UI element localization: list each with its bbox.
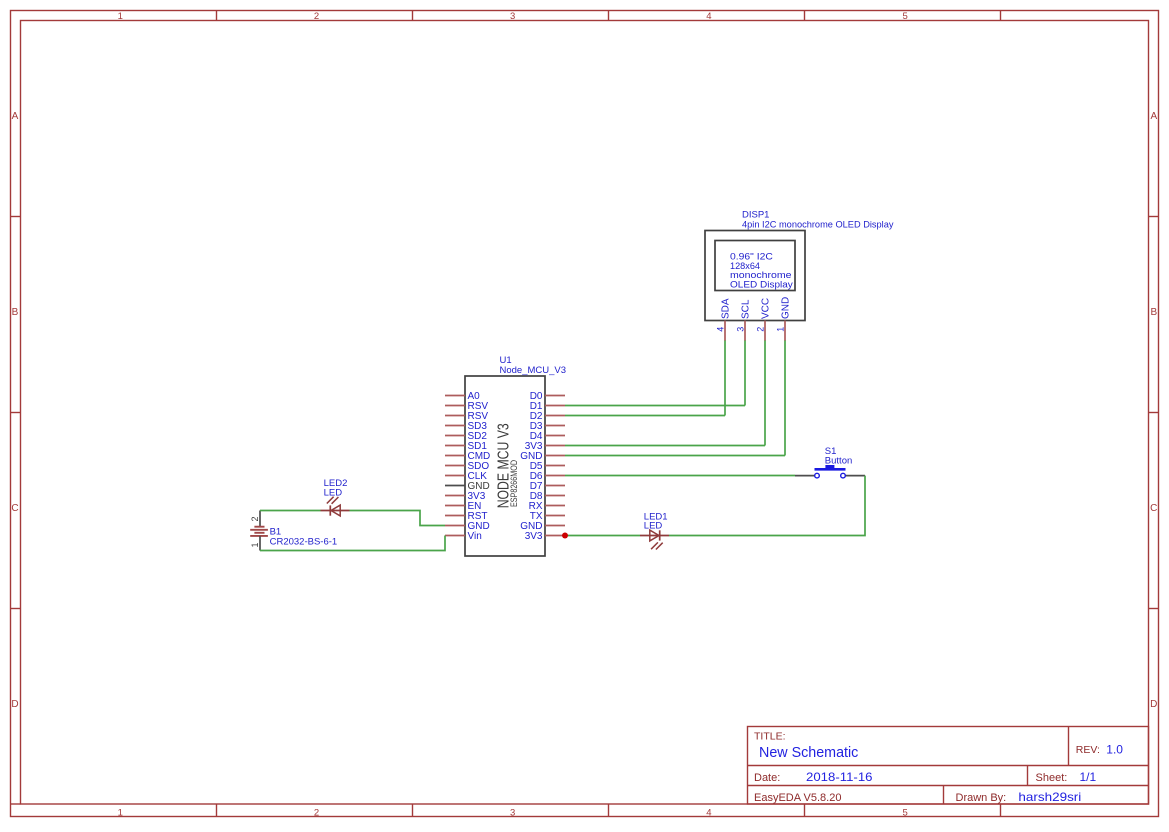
svg-text:EasyEDA V5.8.20: EasyEDA V5.8.20	[754, 792, 841, 804]
junction dot on 3V3 net	[562, 533, 568, 539]
svg-text:Sheet:: Sheet:	[1036, 772, 1068, 784]
svg-text:4: 4	[716, 327, 726, 332]
wire display GND vertical	[784, 341, 786, 456]
U1 left GND pin stub (grey)	[445, 485, 465, 487]
svg-text:C: C	[11, 503, 18, 514]
wire SDA vertical	[724, 341, 726, 416]
wires	[260, 341, 865, 551]
svg-text:CR2032-BS-6-1: CR2032-BS-6-1	[270, 537, 338, 548]
svg-text:2: 2	[250, 516, 260, 521]
svg-text:B: B	[12, 307, 19, 318]
svg-text:harsh29sri: harsh29sri	[1018, 790, 1081, 804]
wire 3V3 to LED1	[565, 535, 640, 537]
wire battery top to LED2	[260, 510, 321, 512]
S1 actuator bump	[825, 465, 834, 469]
svg-text:SDA: SDA	[721, 298, 732, 319]
svg-text:2: 2	[756, 327, 766, 332]
U1 right pin names	[520, 391, 543, 542]
svg-text:1/1: 1/1	[1080, 770, 1097, 784]
svg-text:1.0: 1.0	[1106, 742, 1123, 756]
DISP1 screen rectangle	[715, 241, 795, 291]
svg-text:2018-11-16: 2018-11-16	[806, 770, 873, 784]
IC U1 Node_MCU_V3 (ESP8266MOD NodeMCU module)	[445, 355, 566, 556]
LED1 light arrows	[656, 543, 663, 550]
wire SCL vertical	[744, 341, 746, 406]
U1 right pin stubs	[545, 396, 565, 536]
svg-text:C: C	[1150, 503, 1157, 514]
svg-text:VCC: VCC	[761, 298, 772, 319]
U1 left pin names	[468, 391, 491, 542]
DISP1 pin 1 stub	[784, 321, 786, 342]
svg-text:Node_MCU_V3: Node_MCU_V3	[500, 365, 567, 376]
B1 pin 1 lead (bottom)	[259, 536, 261, 551]
title block	[748, 727, 1149, 805]
S1 left contact circle	[815, 473, 820, 478]
svg-text:1: 1	[118, 807, 123, 818]
svg-text:3: 3	[510, 807, 515, 818]
svg-text:1: 1	[118, 11, 123, 22]
wire LED2 to GND jog	[350, 511, 446, 526]
svg-text:ESP8266MOD: ESP8266MOD	[509, 460, 519, 507]
LED LED1 (cathode right)	[640, 512, 669, 550]
svg-text:LED: LED	[324, 488, 343, 499]
LED1 triangle	[650, 530, 659, 541]
svg-text:3V3: 3V3	[525, 531, 543, 542]
U1 left pin stubs	[445, 396, 465, 536]
LED1 lead	[640, 535, 669, 537]
wire VCC vertical	[764, 341, 766, 446]
LED LED2 (cathode left)	[321, 478, 350, 516]
svg-text:A: A	[1150, 111, 1157, 122]
svg-text:2: 2	[314, 807, 319, 818]
DISP1 pin 4 stub	[724, 321, 726, 342]
svg-text:D: D	[11, 699, 18, 710]
S1 left lead	[795, 475, 815, 477]
svg-text:4: 4	[706, 11, 711, 22]
svg-text:GND: GND	[781, 297, 792, 319]
wire battery bottom to Vin	[260, 536, 445, 551]
svg-text:New Schematic: New Schematic	[759, 745, 858, 761]
LED1 cathode bar	[659, 530, 661, 540]
pushbutton S1	[795, 446, 865, 478]
svg-text:REV:: REV:	[1076, 744, 1100, 756]
svg-text:1: 1	[776, 327, 786, 332]
svg-text:4: 4	[706, 807, 711, 818]
svg-text:Button: Button	[825, 456, 852, 467]
S1 right contact circle	[841, 473, 846, 478]
svg-text:3: 3	[510, 11, 515, 22]
svg-text:Vin: Vin	[468, 531, 482, 542]
svg-text:1: 1	[250, 542, 260, 547]
S1 actuator bar	[815, 468, 846, 471]
LED2 light arrows	[327, 497, 334, 504]
svg-text:B: B	[1150, 307, 1157, 318]
svg-text:D: D	[1150, 699, 1157, 710]
B1 plates	[250, 527, 268, 536]
DISP1 outer body	[705, 231, 805, 321]
svg-text:LED: LED	[644, 521, 663, 532]
svg-text:A: A	[12, 111, 19, 122]
DISP1 pin 3 stub	[744, 321, 746, 342]
wire 3V3 to VCC horizontal	[565, 445, 765, 447]
wire D6 to S1	[565, 475, 795, 477]
LED2 triangle	[331, 505, 340, 516]
wire S1 down	[669, 476, 865, 536]
svg-text:3: 3	[736, 327, 746, 332]
svg-text:5: 5	[902, 11, 907, 22]
battery B1 CR2032-BS-6-1	[250, 511, 337, 551]
DISP1 screen text	[730, 252, 793, 290]
S1 right lead	[846, 475, 866, 477]
wire D2 to SDA horizontal	[565, 415, 725, 417]
DISP1 pin 2 stub	[764, 321, 766, 342]
svg-text:5: 5	[902, 807, 907, 818]
B1 pin 2 lead (top)	[259, 511, 261, 527]
svg-text:2: 2	[314, 11, 319, 22]
U1 body	[465, 376, 545, 556]
wire D1 to SCL horizontal	[565, 405, 745, 407]
LED2 cathode bar	[329, 505, 331, 515]
LED2 lead	[321, 510, 350, 512]
display DISP1 4pin I2C monochrome OLED Display	[705, 210, 894, 342]
svg-text:SCL: SCL	[741, 299, 752, 319]
svg-text:TITLE:: TITLE:	[754, 731, 786, 743]
svg-text:Drawn By:: Drawn By:	[956, 792, 1007, 804]
svg-text:4pin I2C monochrome OLED Displ: 4pin I2C monochrome OLED Display	[742, 220, 894, 231]
svg-text:OLED Display: OLED Display	[730, 280, 793, 290]
wire GND to display GND horizontal	[565, 455, 785, 457]
svg-text:Date:: Date:	[754, 772, 780, 784]
